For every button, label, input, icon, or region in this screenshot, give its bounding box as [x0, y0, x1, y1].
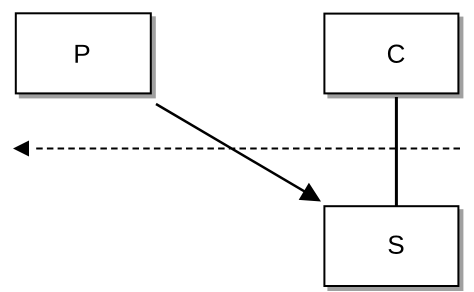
label P	[75, 45, 89, 63]
solid arrow head	[299, 183, 321, 202]
wire C to S	[395, 97, 398, 206]
shadow of box C	[327, 17, 463, 99]
shadow of box P	[19, 16, 156, 98]
box C	[324, 14, 458, 94]
solid arrow line P to S	[156, 104, 306, 192]
dashed arrow line	[33, 148, 460, 150]
shadow of box S	[327, 209, 463, 291]
box S	[324, 206, 458, 286]
label C	[388, 45, 404, 63]
label S	[389, 236, 404, 254]
dashed arrow head	[13, 141, 29, 157]
box P	[16, 13, 151, 93]
